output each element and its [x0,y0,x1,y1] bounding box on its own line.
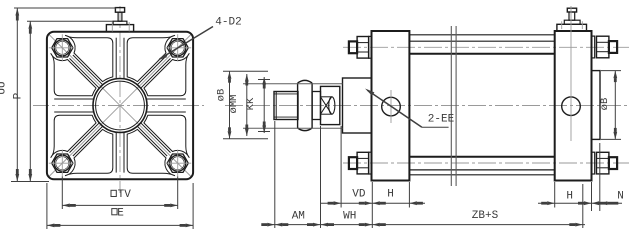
rib diagonal SE [137,123,170,156]
dimension UU [0,8,117,182]
pocket left-upper [51,54,96,96]
centerline horizontal (left view) [33,105,204,107]
bolt hole TR (D2) [164,34,191,61]
bolt hole TL (D2) [49,34,76,61]
svg-text:øB: øB [216,89,228,102]
svg-text:2-EE: 2-EE [428,114,455,126]
cylinder tube [409,54,554,157]
pocket top-left [65,35,112,81]
pocket right-upper [144,54,189,96]
rib diagonal SW [70,123,103,156]
svg-text:AM: AM [292,210,305,222]
svg-text:ZB+S: ZB+S [472,210,499,222]
svg-text:VD: VD [352,189,366,201]
rod collar [312,92,320,120]
svg-text:UU: UU [0,81,9,94]
rear cap [555,31,592,181]
extension line ZB+S right [582,184,584,228]
extension line H-left-right [408,182,410,208]
dimension KK [245,77,270,133]
port EE (head cap) [382,90,401,123]
piston rod thread KK [274,92,298,120]
rod gland [343,78,372,133]
pocket top-right [127,35,174,81]
pocket bottom-left [65,129,112,175]
rib vertical N-S [116,38,124,173]
svg-text:4-D2: 4-D2 [215,17,241,29]
dimension oB (left) [216,71,269,139]
tie rod centerline bottom [343,162,629,164]
centerline vertical (left view) [119,6,121,193]
svg-text:E: E [117,207,124,219]
pocket right-lower [144,115,189,157]
svg-text:H: H [387,189,394,201]
piston lines [451,26,456,186]
fitting hidden lines [112,22,129,31]
rib horizontal E-W [54,99,186,112]
svg-text:H: H [566,190,573,202]
breather fitting (rear cap) [557,8,587,31]
head cap [372,31,410,181]
pocket left-lower [51,115,96,157]
extension line cap right [591,182,593,211]
extension line VD-left [340,126,342,208]
dimension oB (right) [599,71,621,140]
tie rod nut bottom-left [349,152,372,174]
port EE (rear cap) [562,97,581,116]
rib diagonal NE [137,55,170,88]
extension line cap face [371,182,373,228]
rod nut [298,80,313,130]
dimension P [13,21,114,181]
dimension E (square) [47,183,193,229]
bore circle inner [96,81,145,130]
svg-text:P: P [13,92,25,99]
label 2-EE with leader [365,89,455,128]
dimension H (right) and N [538,190,624,205]
dimension VD and H (left) [321,189,425,206]
bolt hole BR (D2) [164,150,191,177]
dimension TV (square) [62,177,177,210]
bore circle outer [93,79,147,133]
tie rods [409,35,554,175]
flange outline [47,32,193,179]
centerline horizontal (side view) [225,105,629,107]
extension line WH-left [320,126,322,228]
tie rod centerline top [343,46,629,48]
bolt hole BL (D2) [49,150,76,177]
tie rod nut top-right [592,36,617,58]
label 4-D2 with leader [158,17,242,61]
rear boss B [592,71,601,140]
svg-text:øMM: øMM [228,95,240,114]
rib diagonal NW [70,55,103,88]
svg-text:KK: KK [245,97,257,110]
dimension oMM [228,74,343,136]
extension line AM-left [274,121,276,228]
svg-text:TV: TV [118,189,132,201]
dimensions AM, WH, ZB+S [261,210,585,227]
tie rod nut top-left [349,36,372,58]
extension line boss right [599,143,601,211]
svg-text:WH: WH [343,210,356,222]
tie rod nut bottom-right [592,152,617,174]
rod wrench flats [321,86,340,124]
breather fitting (left view) [106,8,133,32]
pocket bottom-right [127,129,174,175]
rear fitting centerline [562,6,583,141]
centerline diagonal NW-SE [49,35,191,177]
extension line tube end [554,182,556,208]
svg-text:N: N [617,190,624,202]
centerline diagonal NE-SW [49,35,191,177]
svg-text:øB: øB [599,98,611,111]
